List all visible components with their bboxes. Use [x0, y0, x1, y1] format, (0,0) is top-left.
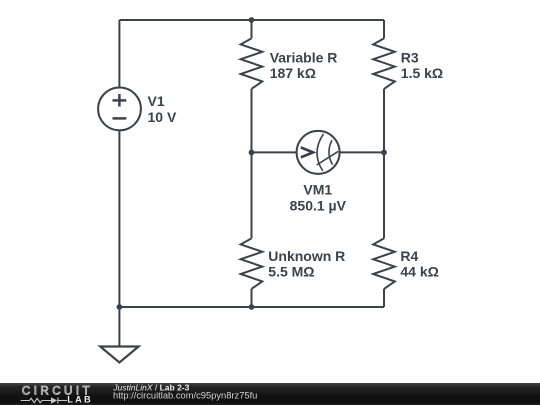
svg-text:R4: R4 — [400, 248, 418, 264]
resistor R3 zigzag — [373, 38, 395, 89]
wire left column upper (top rail to V1 plus terminal) — [118, 20, 120, 88]
CircuitLab logo resistor-diode glyph — [21, 397, 67, 403]
label R4 designator — [400, 248, 418, 264]
svg-text:44 kΩ: 44 kΩ — [400, 264, 438, 280]
wire middle column top lead — [251, 20, 253, 38]
svg-text:R3: R3 — [401, 49, 419, 65]
resistor R4 zigzag — [373, 238, 395, 289]
label R4 value 44 kOhm — [400, 264, 438, 280]
wire top rail — [119, 19, 384, 21]
wire right column between node C and R4 — [383, 152, 385, 238]
svg-text:Variable R: Variable R — [270, 49, 338, 65]
svg-text:LAB: LAB — [67, 394, 91, 404]
svg-text:http://circuitlab.com/c95pyn8r: http://circuitlab.com/c95pyn8rz75fu — [113, 390, 257, 400]
junction node at bottom of middle column — [249, 304, 255, 310]
wire VM1 right terminal to node C — [340, 151, 384, 153]
wire left column lower (V1 minus terminal to bottom rail) — [118, 130, 120, 307]
junction node B (left of voltmeter) — [249, 150, 255, 156]
svg-text:VM1: VM1 — [303, 182, 332, 198]
wire bottom rail — [119, 306, 384, 308]
label VM1 designator — [303, 182, 332, 198]
svg-text:10 V: 10 V — [148, 109, 177, 125]
label V1 designator — [148, 93, 165, 109]
footer url — [113, 390, 257, 400]
label R3 designator — [401, 49, 419, 65]
junction node at top of middle column — [249, 17, 255, 23]
svg-text:1.5 kΩ: 1.5 kΩ — [401, 65, 443, 81]
footer title JustinLinX / Lab 2-3 — [112, 382, 189, 392]
wire ground stem — [118, 307, 120, 347]
wire right column between R3 and node C — [383, 89, 385, 152]
label V1 value 10 V — [148, 109, 177, 125]
CircuitLab logo wordmark CIRCUIT — [22, 384, 92, 397]
resistor Unknown R zigzag — [241, 238, 263, 289]
voltmeter VM1 — [297, 131, 340, 174]
resistor Variable R zigzag — [241, 38, 263, 89]
wire node B to VM1 left terminal — [252, 151, 297, 153]
svg-text:Unknown R: Unknown R — [268, 248, 345, 264]
label Variable R designator — [270, 49, 338, 65]
label Unknown R value 5.5 MOhm — [268, 264, 314, 280]
ground — [100, 347, 138, 363]
label Variable R value 187 kOhm — [270, 65, 316, 81]
wire middle column between Variable R and node B — [251, 89, 253, 152]
voltage source V1 — [98, 88, 141, 131]
junction node bottom left — [117, 304, 123, 310]
wire right column top lead — [383, 20, 385, 38]
svg-text:5.5 MΩ: 5.5 MΩ — [268, 264, 314, 280]
svg-text:V1: V1 — [148, 93, 165, 109]
CircuitLab logo wordmark LAB — [67, 394, 91, 404]
wire middle column between node B and Unknown R — [251, 152, 253, 238]
svg-text:850.1 µV: 850.1 µV — [290, 197, 347, 213]
junction node C (right of voltmeter) — [381, 150, 387, 156]
wire middle column bottom lead — [251, 289, 253, 307]
label VM1 reading 850.1 uV — [290, 197, 347, 213]
label Unknown R designator — [268, 248, 345, 264]
label R3 value 1.5 kOhm — [401, 65, 443, 81]
footer bar — [0, 383, 540, 405]
wire right column bottom lead — [383, 289, 385, 307]
svg-text:187 kΩ: 187 kΩ — [270, 65, 316, 81]
